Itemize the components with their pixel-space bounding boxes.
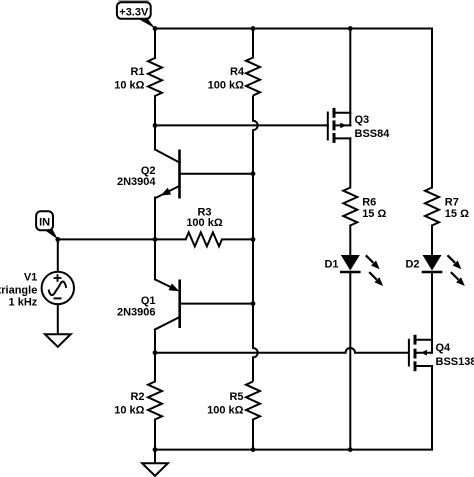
wire IN row: flag to left column [58, 238, 155, 240]
wire D2 cathode down to Q4 drain [431, 272, 433, 353]
LED D2 [405, 226, 464, 287]
transistor Q2 2N3904 NPN [117, 125, 180, 239]
wire middle column R3 node to Q1 base [252, 239, 254, 303]
power flag +3.3V [117, 2, 155, 28]
wire middle column Q2 base to R3 node [252, 174, 254, 240]
svg-text:10 kΩ: 10 kΩ [114, 405, 144, 417]
node: IN row / left column junction [153, 237, 158, 242]
svg-text:100 kΩ: 100 kΩ [208, 80, 245, 92]
node: Q1 base / R5 junction [251, 301, 256, 306]
ground main [142, 450, 168, 476]
node: top rail / Q3 source junction [348, 26, 353, 31]
node: bottom rail / R2 / ground junction [153, 447, 158, 452]
ground below V1 [45, 334, 71, 347]
wire Q3 source to top rail [349, 29, 351, 126]
resistor R3 100k (horizontal) [186, 207, 253, 247]
wire IN row: left column to R3 [155, 238, 186, 240]
resistor R6 15 ohm [343, 188, 386, 226]
svg-text:BSS138: BSS138 [436, 356, 474, 368]
resistor R2 10k [114, 353, 162, 450]
svg-text:1 kHz: 1 kHz [9, 296, 38, 308]
transistor Q3 BSS84 PMOS [328, 108, 390, 143]
svg-text:triangle: triangle [0, 284, 37, 296]
node: Q2 base / R4 junction [251, 171, 256, 176]
transistor Q4 BSS138 NMOS [409, 335, 474, 371]
svg-text:IN: IN [39, 217, 50, 229]
svg-text:BSS84: BSS84 [355, 128, 391, 140]
node: top rail / R1 junction [153, 26, 158, 31]
resistor R7 15 ohm [425, 188, 469, 226]
svg-text:15 Ω: 15 Ω [445, 208, 469, 220]
voltage source V1 triangle 1kHz [0, 239, 74, 334]
node: top rail / R4 junction [251, 26, 256, 31]
node: R1 / Q2 collector / Q3 gate junction [153, 123, 158, 128]
wire Q3 drain down to R6 [349, 138, 351, 187]
wire middle column Q1 base to R5 (hops over Q4 gate wire) [253, 304, 258, 382]
wire top rail to R7 [431, 29, 433, 188]
svg-text:V1: V1 [24, 271, 37, 283]
wire Q4 source down to bottom rail [431, 366, 433, 450]
wire Q3 gate row from R1/Q2 node to Q3 gate [155, 124, 328, 126]
wire D1 cathode down to bottom rail [349, 272, 351, 450]
svg-text:100 kΩ: 100 kΩ [207, 405, 244, 417]
svg-text:100 kΩ: 100 kΩ [186, 217, 223, 229]
node: D1 column / bottom rail junction [348, 447, 353, 452]
node: IN junction [55, 237, 60, 242]
resistor R5 100k [207, 382, 260, 450]
LED D1 [324, 226, 383, 287]
svg-text:R4: R4 [230, 66, 245, 78]
svg-text:Q1: Q1 [141, 295, 156, 307]
wire middle column R4 bottom to Q2 base (hops over Q3 gate wire) [253, 96, 258, 174]
svg-text:R6: R6 [362, 197, 376, 209]
svg-text:R7: R7 [445, 197, 459, 209]
input flag IN [36, 211, 58, 239]
node: bottom rail / R5 junction [251, 447, 256, 452]
svg-text:10 kΩ: 10 kΩ [114, 80, 144, 92]
svg-text:R5: R5 [229, 391, 243, 403]
resistor R4 100k [208, 29, 260, 96]
transistor Q1 2N3906 PNP [117, 239, 180, 352]
wire Q2 base to middle column [180, 173, 254, 175]
grey remnant above +3.3V flag [118, 0, 149, 2]
svg-text:+3.3V: +3.3V [119, 6, 149, 18]
wire bottom rail [155, 449, 432, 451]
wire Q1 base to middle column [180, 303, 253, 305]
svg-text:D1: D1 [324, 259, 338, 271]
svg-text:R1: R1 [130, 66, 144, 78]
node: Q1 collector / R2 / Q4 gate junction [153, 350, 158, 355]
svg-text:Q3: Q3 [355, 114, 370, 126]
node: R3 / middle column junction [251, 237, 256, 242]
svg-text:D2: D2 [405, 259, 419, 271]
wire Q4 gate row (hops over D1 column) [155, 348, 409, 353]
svg-text:15 Ω: 15 Ω [362, 208, 386, 220]
svg-text:2N3906: 2N3906 [117, 306, 156, 318]
svg-text:2N3904: 2N3904 [117, 176, 156, 188]
svg-text:R2: R2 [130, 391, 144, 403]
svg-text:Q4: Q4 [436, 342, 452, 354]
resistor R1 10k [114, 29, 162, 126]
wire top +3.3V rail [155, 28, 432, 30]
